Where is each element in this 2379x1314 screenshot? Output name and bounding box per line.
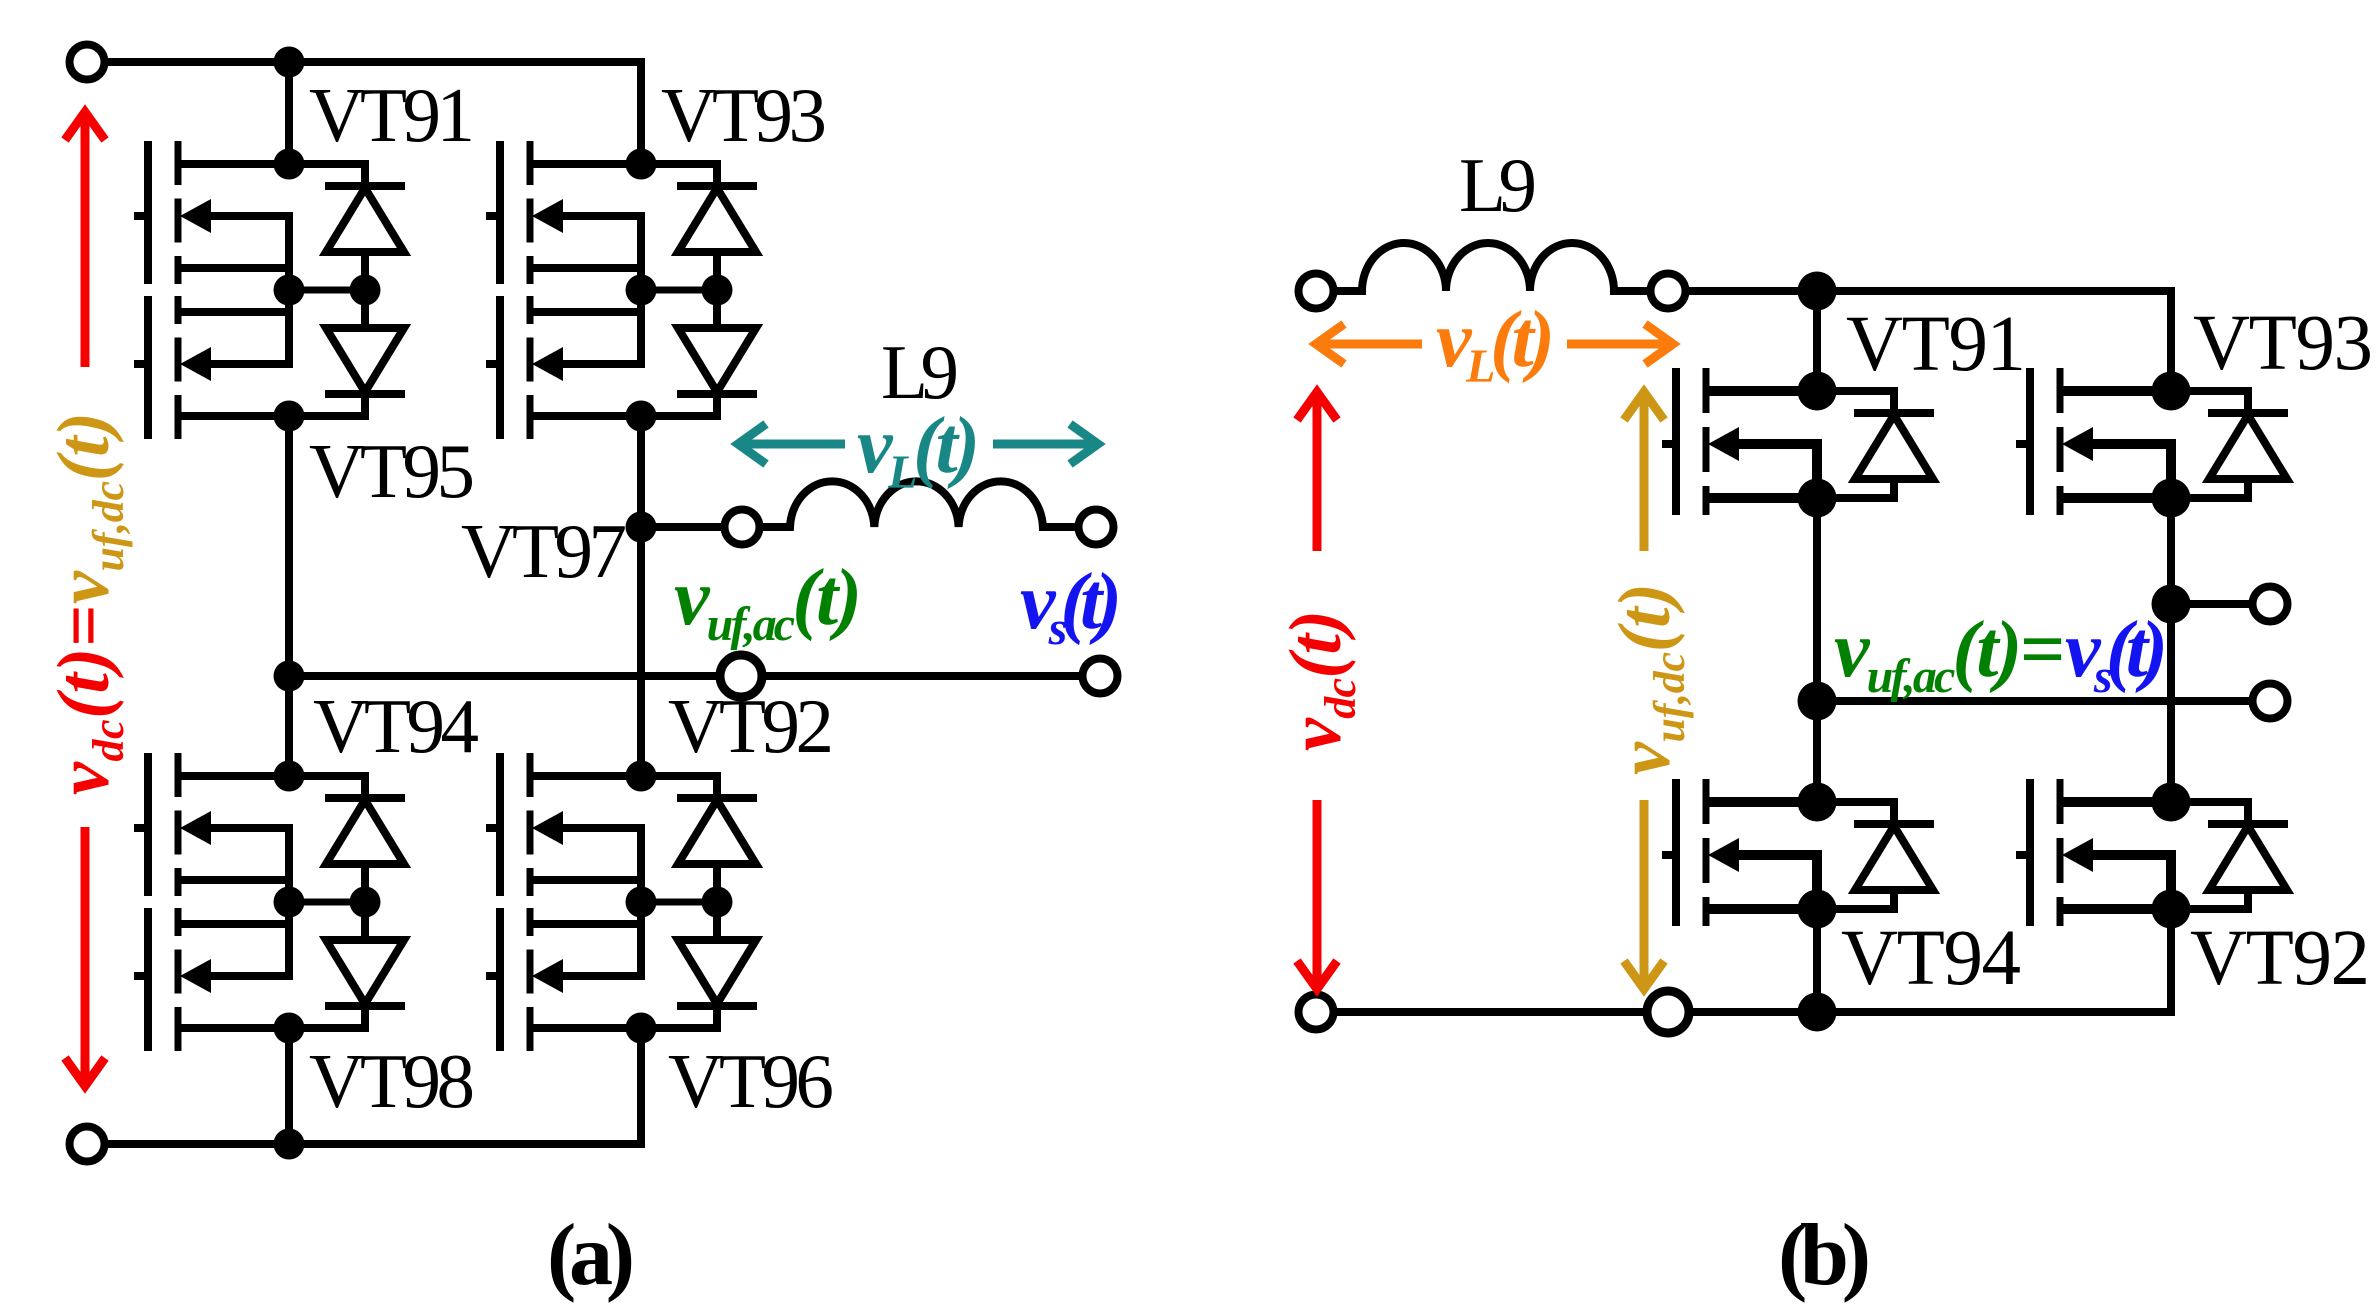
annotation arrow vuf,dc (b), dark yellow, down (1624, 800, 1664, 989)
node: vs lower terminal (b) (2253, 684, 2288, 719)
junction on top rail above VT91 (274, 47, 305, 78)
transistor VT92 with body diode (b) (2016, 779, 2288, 929)
node: bottom-left DC terminal (a) (70, 1127, 105, 1162)
svg-text:L9: L9 (1459, 142, 1537, 228)
node: L9 input terminal (725, 510, 760, 545)
node: vuf,dc terminal ring on bottom rail (b) (1647, 991, 1689, 1033)
svg-text:VT92: VT92 (668, 683, 834, 769)
node: L9 output terminal (b) (1651, 274, 1686, 309)
annotation arrow vL (b), orange, double-headed (1316, 324, 1673, 364)
svg-text:VT91: VT91 (1846, 301, 2026, 388)
wire: drop to VT93 (b) (2167, 287, 2175, 391)
junction above VT91 (b) (1798, 272, 1837, 311)
node: inductor feed junction (626, 512, 657, 543)
node: top-left DC terminal (a) (70, 45, 105, 80)
svg-text:VT95: VT95 (309, 428, 475, 514)
wire: bottom DC rail (a) (108, 1140, 645, 1148)
wire: top rail (b) (1689, 287, 2175, 295)
node: left leg AC midpoint (274, 661, 305, 692)
svg-text:VT93: VT93 (2193, 300, 2373, 387)
wire: left leg mid (VT91 source to VT94 drain) (1813, 498, 1821, 802)
junction on bottom rail below VT98 (274, 1129, 305, 1160)
svg-text:(a): (a) (547, 1207, 635, 1304)
svg-text:vL(t): vL(t) (1436, 296, 1555, 393)
transistor pair VT91/VT95 with body diodes (bidirectional switch) (134, 141, 405, 439)
wire: shared AC return rail (289, 672, 1079, 680)
wire: right leg mid (VT93 source to VT92 drain) (2167, 498, 2175, 802)
annotation arrow vdc (a), red, up (65, 112, 105, 367)
svg-text:VT91: VT91 (309, 72, 475, 158)
svg-text:(b): (b) (1778, 1207, 1871, 1304)
svg-text:VT94: VT94 (1841, 915, 2021, 1002)
node: L9 input terminal (b) (1299, 274, 1334, 309)
wire: drop from rail to VT93 cell (637, 62, 645, 164)
wire: bottom rail riser to VT92 source (2167, 909, 2175, 1016)
wire: branch to inductor L9 input (641, 523, 721, 531)
transistor VT93 with body diode (b) (2016, 368, 2288, 518)
node: L9 output / vs top terminal (1079, 510, 1114, 545)
svg-text:VT97: VT97 (461, 508, 627, 594)
wire: vuf,ac output to right terminal (crosses right leg) (1817, 697, 2249, 705)
svg-text:VT94: VT94 (313, 683, 479, 769)
svg-text:vs(t): vs(t) (2065, 606, 2168, 703)
wire: left leg mid connection (VT95 source to VT94 drain) (285, 416, 293, 776)
annotation arrow vdc (b), red, up (1297, 392, 1337, 551)
wire: drop from rail to VT91 cell (285, 62, 293, 164)
wire: right leg mid connection (VT97 to VT92, crosses AC rail) (637, 416, 645, 776)
transistor pair VT94/VT98 with body diodes (bidirectional switch) (134, 753, 405, 1051)
wire: VT94 source to bottom rail (b) (1813, 909, 1821, 1012)
wire: bottom rail riser to VT96 (637, 1028, 645, 1148)
wire: top DC rail (a) (108, 58, 645, 66)
node: vuf,ac terminal ring on AC rail (720, 655, 762, 697)
svg-text:VT96: VT96 (668, 1038, 834, 1124)
svg-text:VT93: VT93 (661, 72, 827, 158)
junction below VT94 (b) (1798, 993, 1837, 1032)
annotation arrow vdc (b), red, down (1297, 800, 1337, 989)
wire: drop to VT91 (b) (1813, 291, 1821, 391)
svg-text:VT92: VT92 (2190, 915, 2370, 1002)
transistor VT91 with body diode (b) (1662, 368, 1934, 518)
node: vs upper terminal (b) (2253, 587, 2288, 622)
annotation arrow vL (a), teal, double-headed (738, 424, 1098, 464)
transistor VT94 with body diode (b) (1662, 779, 1934, 929)
svg-text:VT98: VT98 (309, 1038, 475, 1124)
inductor L9 (figure b) (1337, 243, 1647, 291)
svg-text:vL(t): vL(t) (857, 402, 980, 499)
annotation arrow vuf,dc (b), dark yellow, up (1624, 392, 1664, 551)
transistor pair VT92/VT96 with body diodes (bidirectional switch) (486, 753, 757, 1051)
svg-text:vs(t): vs(t) (1020, 558, 1122, 655)
node: right leg midpoint (b) (2152, 585, 2191, 624)
wire: bottom rail (b) (1337, 1008, 2175, 1016)
wire: stub to vs upper terminal (2171, 600, 2249, 608)
annotation arrow vdc (a), red, down (65, 827, 105, 1086)
node: left leg midpoint (b) (1798, 682, 1837, 721)
svg-text:vdc(t)=: vdc(t)= (43, 605, 133, 795)
node: vs bottom terminal (1083, 659, 1118, 694)
wire: VT98 source to bottom rail (285, 1028, 293, 1144)
transistor pair VT93/VT97 with body diodes (bidirectional switch) (486, 141, 757, 439)
inductor L9 (figure a) (763, 481, 1075, 527)
node: bottom-left DC terminal (b) (1299, 995, 1334, 1030)
